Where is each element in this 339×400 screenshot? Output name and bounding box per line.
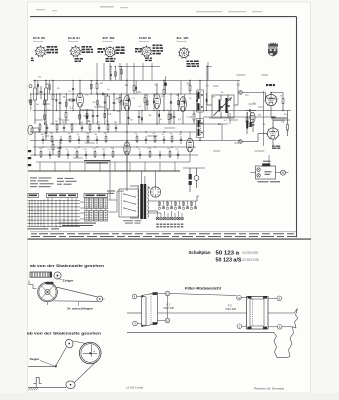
svg-text:15k: 15k	[39, 148, 42, 150]
wire	[126, 81, 128, 96]
wire	[130, 185, 139, 187]
resistor mid x170	[169, 152, 171, 157]
legend side note	[107, 191, 115, 194]
cord horizontal bottom	[28, 386, 66, 388]
heater ladder components	[159, 201, 161, 206]
socket V3 left table	[98, 48, 103, 50]
svg-text:EC: EC	[218, 124, 222, 126]
svg-text:1n: 1n	[162, 134, 164, 136]
filter F2 box	[247, 296, 269, 329]
grid stopper R4	[70, 99, 75, 101]
idler pulley right	[97, 296, 103, 302]
svg-text:(12-2181-1231): (12-2181-1231)	[243, 258, 260, 261]
tube socket view EABC 80	[139, 37, 153, 57]
svg-text:7267-308: 7267-308	[163, 306, 175, 310]
wire	[156, 83, 158, 94]
cathode return bus wire	[30, 154, 198, 156]
capacitor C8	[138, 115, 141, 117]
AF amplifier tube V7	[124, 142, 130, 155]
svg-text:47k: 47k	[85, 95, 88, 97]
capacitor mid x68	[67, 154, 69, 156]
wire	[109, 199, 118, 201]
resistor mid x88	[87, 137, 89, 142]
svg-text:3n: 3n	[99, 106, 101, 108]
socket V3 voltage table	[116, 47, 120, 49]
wire	[148, 210, 158, 212]
socket V1 pin label	[31, 58, 33, 59]
filter F2 pin 8	[277, 296, 282, 301]
transformer primary winding	[137, 186, 140, 189]
oscillator coil L4	[106, 96, 109, 109]
wire	[180, 81, 182, 96]
resistor mid x77	[76, 152, 78, 157]
filter F1 pin wires	[137, 296, 142, 298]
anchor hatch	[29, 387, 31, 390]
svg-text:Schaltplan: Schaltplan	[189, 250, 211, 255]
svg-text:F 2: F 2	[228, 304, 232, 308]
resistor R14 dark	[246, 124, 248, 129]
dial cord run lower	[54, 300, 98, 302]
antenna coil L1	[34, 88, 37, 100]
svg-text:2M: 2M	[45, 84, 48, 86]
power transformer T1 core	[140, 184, 143, 219]
mains switch box S1	[119, 189, 139, 217]
rectifier stack G1	[189, 174, 192, 180]
svg-text:3n: 3n	[170, 133, 172, 135]
svg-text:(12-2181-1103): (12-2181-1103)	[243, 252, 259, 255]
capacitor mid x61	[60, 139, 62, 141]
tube socket view ECC 85	[33, 38, 47, 57]
svg-text:Filter-Rückansicht: Filter-Rückansicht	[185, 287, 222, 291]
loudspeaker input stub	[250, 172, 255, 174]
resistor mid x72	[71, 125, 73, 130]
svg-text:25p: 25p	[154, 84, 157, 86]
right section loop wires	[203, 116, 276, 118]
wire	[270, 93, 272, 95]
svg-text:50 123 a: 50 123 a	[216, 251, 240, 257]
coupling capacitor C6	[101, 93, 103, 96]
chassis line right	[268, 312, 294, 314]
chassis line mid	[158, 312, 247, 314]
wire	[148, 187, 151, 189]
socket V3 lower table	[106, 58, 109, 60]
dial cord run upper	[57, 287, 97, 297]
svg-text:10k: 10k	[36, 104, 39, 106]
svg-text:2M: 2M	[104, 133, 107, 135]
output transformer T2 on box	[262, 163, 270, 166]
switch bank junction dots	[29, 206, 30, 207]
heater bus wire	[30, 140, 240, 142]
speaker jack pin upper	[257, 168, 260, 171]
wire	[196, 196, 198, 201]
svg-text:EABC 80: EABC 80	[139, 37, 152, 40]
detector tube V4	[180, 97, 187, 112]
terminal strip labels	[156, 224, 183, 228]
filter F2 pin 1	[237, 324, 242, 329]
chassis line upper	[127, 312, 142, 314]
loudspeaker terminal right	[281, 170, 286, 175]
wire stub from V6 to speaker	[268, 155, 270, 163]
schematic top border rule	[30, 16, 297, 18]
socket drop wires	[96, 63, 98, 81]
socket V1 voltage table	[47, 46, 51, 48]
filter link wire top	[170, 294, 237, 296]
pilot lamp chain wire	[148, 200, 197, 202]
pointer pulley	[54, 272, 61, 279]
transformer caption	[123, 220, 142, 223]
resistor R1	[52, 95, 54, 100]
switch contact columns	[85, 198, 89, 209]
chassis line lower	[127, 331, 274, 333]
svg-text:8n: 8n	[95, 134, 97, 136]
svg-text:Fassung unten: Fassung unten	[103, 40, 113, 43]
capacitor mid x43	[42, 139, 44, 141]
mixer tube V2 heptode	[124, 96, 131, 111]
speaker box inner labels	[265, 171, 272, 175]
decoupling capacitor C9	[173, 115, 176, 117]
capacitor C12	[252, 123, 255, 125]
cathode resistor R5	[86, 114, 88, 119]
output tube V5	[265, 94, 276, 105]
svg-text:220: 220	[130, 119, 133, 121]
bottom idler pulley	[66, 381, 75, 389]
svg-text:Fassung unten: Fassung unten	[177, 40, 187, 43]
wire	[199, 81, 201, 91]
switch bank connecting wires	[80, 201, 85, 203]
socket V4 voltage table	[153, 45, 156, 47]
short horizontal jog wires	[35, 75, 290, 158]
AF bus wire	[30, 131, 196, 133]
svg-text:7267-328: 7267-328	[225, 307, 237, 311]
switch table header mid	[47, 193, 78, 197]
cord horizontal mid	[28, 366, 56, 368]
resistor mid x59	[58, 152, 60, 157]
antenna terminal A1	[29, 85, 32, 88]
junction dots mid band	[39, 131, 40, 132]
resistor R7	[119, 98, 121, 103]
wire	[272, 139, 274, 145]
wire	[270, 106, 272, 117]
tube socket view EF 89	[103, 38, 117, 58]
tiny label row under V5	[272, 146, 275, 147]
capacitor mid x64	[63, 127, 65, 129]
svg-text:10k: 10k	[281, 122, 284, 124]
capacitor mid x140	[139, 154, 141, 156]
footer strip top rule	[30, 231, 297, 233]
plate load R6	[96, 84, 98, 89]
svg-text:Fassung unten: Fassung unten	[139, 40, 149, 43]
tuning gang capacitor C10	[212, 95, 234, 118]
capacitor mid x104	[103, 154, 105, 156]
torn paper bottom line	[277, 357, 288, 359]
IF tube V3 pentode	[154, 94, 161, 109]
Graetz crown-shield logo	[268, 42, 278, 56]
socket V4 lower table	[145, 58, 149, 59]
capacitor C4	[59, 146, 62, 148]
dial scale bar hatched	[30, 272, 52, 277]
detector line wire	[50, 123, 228, 125]
svg-text:Zeiger: Zeiger	[63, 279, 74, 283]
svg-text:3n: 3n	[88, 121, 90, 123]
volume potentiometer P1	[193, 114, 195, 120]
switch table header left	[28, 193, 39, 197]
drive drum large	[79, 342, 101, 364]
cord anchor spring	[29, 281, 37, 289]
svg-text:Fassung unten: Fassung unten	[68, 40, 78, 43]
wire	[207, 62, 209, 81]
capacitor mid x116	[115, 127, 117, 129]
capacitor mid x164	[163, 139, 165, 141]
capacitor mid x97	[96, 139, 98, 141]
screen bus wire	[33, 110, 291, 112]
schematic right border rule	[296, 17, 298, 238]
left edge oval component	[28, 125, 33, 135]
capacitor mid x82	[81, 127, 83, 129]
filter F1 pin 4 top	[132, 294, 137, 299]
wire	[257, 134, 259, 142]
svg-text:10k: 10k	[284, 114, 287, 116]
wire	[183, 167, 205, 169]
speaker matching box	[256, 166, 276, 179]
svg-text:EL 95: EL 95	[177, 38, 190, 40]
cathode resistor R11	[168, 115, 170, 120]
wire	[189, 168, 191, 174]
chassis ground bus wire	[28, 170, 180, 172]
top idler pulley	[64, 338, 74, 349]
resistor R3	[52, 145, 54, 150]
rotary voltage selector S2	[150, 187, 160, 197]
svg-text:10k: 10k	[80, 122, 83, 124]
svg-text:Fassung unten: Fassung unten	[33, 40, 43, 43]
ferrite rod coil L3	[31, 128, 39, 132]
triode V1a	[77, 93, 84, 107]
svg-text:47k: 47k	[57, 88, 60, 90]
cord drum-to-bottom-pulley	[75, 361, 98, 383]
wire	[234, 104, 238, 106]
filter F2 pin 6	[277, 325, 282, 330]
svg-text:5p: 5p	[107, 89, 109, 91]
svg-text:EC: EC	[213, 97, 216, 99]
spring anchor symbol	[34, 378, 42, 384]
wire	[189, 132, 191, 138]
input jack J1	[239, 91, 243, 95]
footer strip text line 1	[31, 232, 294, 235]
wire	[126, 141, 128, 143]
capacitor mid x181	[180, 139, 182, 141]
capacitor mid x47	[46, 127, 48, 129]
svg-text:EC: EC	[166, 110, 169, 112]
svg-text:ECC 85: ECC 85	[33, 38, 46, 40]
density stub branches	[30, 66, 207, 125]
wire	[199, 138, 201, 141]
cord pulley-to-drum top	[73, 341, 87, 344]
socket V4 left table	[135, 48, 139, 50]
screen resistor R10	[163, 90, 165, 95]
resistor R13	[246, 118, 248, 123]
left edge blobs	[28, 150, 31, 152]
capacitor mid x178	[177, 154, 179, 156]
capacitor C3	[45, 131, 48, 133]
capacitor C2	[59, 101, 62, 103]
wire	[126, 111, 128, 141]
wire	[126, 141, 128, 192]
wire	[79, 81, 81, 94]
AVC bus wire	[30, 93, 198, 95]
speaker jack pin lower	[257, 174, 260, 177]
switch bank caption	[28, 223, 97, 230]
transformer feed wires	[141, 171, 143, 184]
node dots left section	[34, 80, 35, 81]
wire	[45, 81, 47, 89]
svg-text:ab von der Skalenseite gesehen: ab von der Skalenseite gesehen	[30, 264, 105, 268]
svg-text:ab von der Skalenseite gesehen: ab von der Skalenseite gesehen	[27, 332, 102, 336]
legend column 2	[57, 178, 77, 185]
svg-text:12 140 h o/wa: 12 140 h o/wa	[126, 386, 143, 390]
svg-text:70: 70	[68, 91, 70, 93]
footer strip text line 2	[31, 235, 296, 238]
svg-text:1M: 1M	[115, 99, 118, 101]
input jack J2	[239, 140, 243, 144]
svg-text:2M: 2M	[176, 95, 179, 97]
wire	[207, 104, 212, 106]
filter F1 vertical link	[167, 296, 169, 318]
terminal strip circles	[156, 217, 159, 220]
arrow 2x umschlingen	[78, 302, 80, 306]
svg-text:ECH 81: ECH 81	[68, 38, 81, 40]
wire	[79, 107, 81, 124]
idler tail wire	[103, 298, 105, 300]
resistor mid x70	[69, 137, 71, 142]
resistor R16	[287, 125, 289, 130]
transformer secondary winding	[147, 186, 150, 189]
feedback bus wire	[36, 161, 190, 163]
component value labels upper area	[36, 77, 289, 151]
capacitor mid x79	[78, 139, 80, 141]
svg-text:F 1: F 1	[167, 303, 171, 307]
svg-text:1M: 1M	[148, 115, 151, 117]
svg-text:2M: 2M	[41, 134, 44, 136]
capacitor mid x99	[98, 127, 100, 129]
wire	[276, 172, 281, 174]
right elco stack	[246, 121, 248, 125]
right section labels row	[271, 118, 287, 121]
filter F1 box	[142, 292, 158, 326]
capacitor mid x86	[85, 154, 87, 156]
filter F2 pin wires	[241, 297, 246, 299]
antenna trimmer C1	[40, 90, 43, 92]
bias bus wire	[33, 146, 196, 148]
svg-text:Printed in W. Germany: Printed in W. Germany	[254, 387, 285, 391]
wire	[246, 112, 248, 121]
svg-text:3n: 3n	[45, 122, 47, 124]
output tube oval V8	[186, 138, 193, 152]
socket V2 lower table	[75, 58, 79, 60]
svg-text:0,5: 0,5	[286, 131, 289, 133]
svg-text:2× umschlingen: 2× umschlingen	[67, 306, 93, 310]
resistor mid x52	[51, 137, 53, 142]
resistor mid x90	[89, 125, 91, 130]
svg-text:1M: 1M	[137, 92, 140, 94]
wire	[246, 128, 248, 134]
wire	[157, 211, 159, 217]
switch bank vertical ties	[29, 200, 31, 226]
IF can F1 shield	[197, 90, 204, 112]
resistor mid x41	[40, 152, 42, 157]
resistor mid x137	[136, 137, 138, 142]
svg-text:1M: 1M	[55, 121, 58, 123]
wire	[271, 116, 276, 118]
svg-text:1M: 1M	[179, 134, 182, 136]
AF diode section tube	[250, 112, 255, 122]
torn paper edge right	[288, 309, 299, 358]
resistor mid x40	[39, 125, 41, 130]
Zeiger arrow 1	[57, 278, 63, 281]
capacitor mid x50	[49, 154, 51, 156]
bypass capacitor C5	[92, 114, 95, 116]
svg-text:1M: 1M	[62, 122, 65, 124]
resistor mid x150	[149, 152, 151, 157]
faint pencil marks top margin	[36, 6, 262, 12]
switch table header right	[84, 193, 108, 197]
resistor mid x113	[112, 152, 114, 157]
resistor mid x172	[171, 137, 173, 142]
tube socket view ECH 81	[68, 38, 82, 57]
cord top-pulley-down	[56, 347, 67, 366]
footer strip bottom rule	[28, 238, 312, 240]
socket V5 voltage table	[187, 61, 190, 63]
torn paper edge left	[274, 332, 278, 357]
resistor R9	[144, 98, 146, 103]
wire	[182, 112, 184, 125]
svg-text:1M: 1M	[58, 119, 61, 121]
resistor mid x108	[107, 125, 109, 130]
resistor mid x95	[94, 152, 96, 157]
tube socket view EL 95	[177, 38, 191, 59]
switch bank harness wires	[28, 199, 81, 201]
wire	[34, 132, 36, 155]
smoothing elco C13	[194, 176, 199, 181]
tuning drum pulley	[38, 282, 58, 305]
svg-text:1M: 1M	[114, 122, 117, 124]
drum clamp detail	[46, 282, 54, 285]
resistor mid x155	[154, 137, 156, 142]
coupling capacitor C11	[248, 109, 250, 112]
wire	[272, 117, 274, 128]
svg-text:47k: 47k	[148, 148, 151, 150]
wire	[156, 109, 158, 125]
junction pulley dot	[55, 365, 57, 367]
wire	[199, 112, 201, 124]
capacitor mid x146	[145, 139, 147, 141]
wire	[242, 92, 265, 94]
anode supply bus wire	[33, 80, 240, 82]
resistor R2	[65, 113, 67, 118]
filter F1 pin 10 top	[165, 291, 170, 296]
filter F2 pin 12	[237, 295, 242, 300]
socket V2 voltage table	[82, 46, 86, 48]
capacitor mid x160	[159, 154, 161, 156]
upper tie wire a	[118, 66, 160, 68]
svg-text:10k: 10k	[263, 124, 266, 126]
speaker box caption	[258, 181, 281, 182]
filter F1 pin 4 bottom	[133, 321, 138, 326]
coil L2	[45, 88, 48, 100]
resistor mid x57	[56, 125, 58, 130]
pin6 line to tear	[282, 326, 293, 328]
wire	[242, 141, 258, 143]
resistor R8	[133, 86, 135, 91]
phase splitter tube V6	[267, 128, 278, 139]
